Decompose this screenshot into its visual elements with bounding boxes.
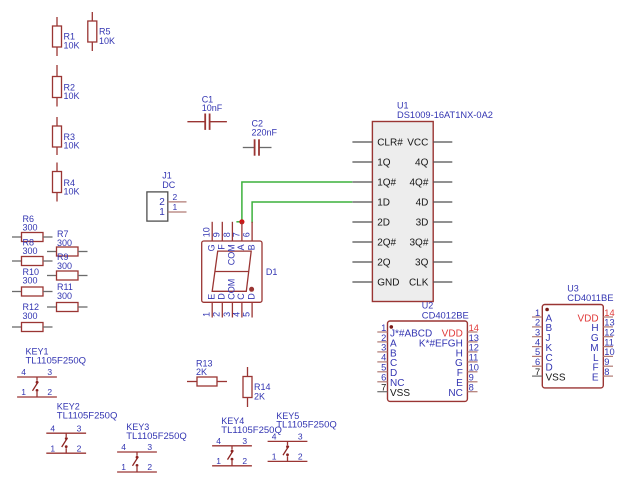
svg-text:300: 300	[23, 311, 38, 321]
svg-text:2D: 2D	[377, 217, 390, 228]
pushbutton KEY2	[46, 433, 86, 453]
svg-text:300: 300	[23, 276, 38, 286]
wire net from U1 1Q# to D1 pin 7	[242, 182, 352, 222]
svg-text:7: 7	[535, 367, 540, 377]
svg-text:3Q#: 3Q#	[409, 237, 428, 248]
svg-text:4: 4	[535, 337, 540, 347]
U2 left pin numbers 1-7	[381, 323, 386, 393]
wire stub left of junction	[236, 221, 239, 223]
svg-text:COM: COM	[227, 279, 237, 300]
svg-text:TL1105F250Q: TL1105F250Q	[57, 411, 118, 422]
U1 right pin stubs	[433, 142, 452, 282]
svg-text:3: 3	[47, 367, 52, 377]
svg-text:VCC: VCC	[407, 137, 428, 148]
svg-text:10: 10	[604, 347, 614, 357]
U2 right pin stubs	[467, 332, 477, 392]
svg-text:2: 2	[242, 456, 247, 466]
svg-text:COM: COM	[227, 244, 237, 265]
resistor R7	[47, 247, 88, 256]
svg-text:TL1105F250Q: TL1105F250Q	[276, 420, 337, 431]
svg-text:TL1105F250Q: TL1105F250Q	[126, 431, 187, 442]
svg-text:2: 2	[173, 192, 178, 202]
U2 left pin stubs	[377, 332, 387, 392]
svg-text:1: 1	[381, 323, 386, 333]
svg-text:6: 6	[381, 373, 386, 383]
U3 pin 1 dot	[545, 308, 549, 312]
svg-text:3Q: 3Q	[415, 257, 429, 268]
svg-text:3: 3	[298, 432, 303, 442]
svg-text:2: 2	[47, 387, 52, 397]
svg-text:CD4011BE: CD4011BE	[567, 292, 613, 303]
svg-text:DS1009-16AT1NX-0A2: DS1009-16AT1NX-0A2	[397, 110, 493, 120]
svg-text:14: 14	[604, 308, 614, 318]
svg-text:2Q: 2Q	[377, 257, 391, 268]
IC U2 body	[388, 321, 468, 401]
svg-text:2Q#: 2Q#	[377, 237, 396, 248]
svg-text:300: 300	[23, 246, 38, 256]
U2 pin 1 dot	[390, 325, 394, 329]
resistor R3	[53, 117, 62, 155]
svg-text:1: 1	[50, 443, 55, 453]
svg-text:1: 1	[202, 312, 212, 317]
svg-text:NC: NC	[448, 388, 462, 399]
U1 left pin stubs	[352, 142, 372, 282]
svg-text:E: E	[206, 294, 216, 300]
svg-text:DC: DC	[162, 180, 175, 190]
svg-text:220nF: 220nF	[252, 128, 278, 138]
svg-text:9: 9	[212, 232, 222, 237]
svg-text:1Q#: 1Q#	[377, 177, 396, 188]
U3 right pin stubs	[603, 317, 613, 376]
resistor R13	[187, 377, 227, 386]
svg-text:4Q#: 4Q#	[409, 177, 428, 188]
resistor R5	[88, 12, 97, 51]
svg-text:300: 300	[57, 291, 72, 301]
resistor R8	[12, 257, 53, 266]
svg-text:CLK: CLK	[409, 277, 429, 288]
svg-text:7: 7	[231, 232, 241, 237]
U2 pin names	[390, 328, 463, 399]
svg-text:4: 4	[50, 423, 55, 433]
svg-text:12: 12	[469, 343, 479, 353]
svg-text:10: 10	[202, 227, 212, 237]
seven-segment display D1 body	[202, 222, 262, 318]
svg-text:2: 2	[381, 333, 386, 343]
svg-text:300: 300	[23, 223, 38, 233]
svg-text:4: 4	[231, 312, 241, 317]
IC U3 body	[542, 305, 603, 388]
svg-text:4: 4	[121, 442, 126, 452]
svg-text:4: 4	[381, 353, 386, 363]
svg-text:1: 1	[173, 202, 178, 212]
wire net from U1 1D to D1 pin 6	[252, 202, 352, 223]
svg-text:3: 3	[535, 328, 540, 338]
svg-text:8: 8	[604, 367, 609, 377]
svg-text:A: A	[236, 244, 246, 250]
svg-text:10K: 10K	[64, 91, 80, 101]
D1 decimal point dot	[249, 287, 254, 292]
U1 pin names	[377, 137, 429, 288]
IC U1 body	[372, 122, 433, 302]
pushbutton KEY3	[117, 452, 157, 472]
svg-text:10K: 10K	[64, 140, 80, 150]
svg-text:5: 5	[242, 312, 252, 317]
svg-text:1: 1	[216, 456, 221, 466]
svg-text:2: 2	[298, 452, 303, 462]
svg-text:10K: 10K	[64, 186, 80, 196]
resistor R12	[12, 323, 53, 332]
svg-text:E: E	[592, 373, 599, 384]
svg-text:9: 9	[604, 357, 609, 367]
svg-text:2: 2	[77, 443, 82, 453]
svg-text:2: 2	[212, 312, 222, 317]
svg-text:B: B	[246, 244, 256, 250]
svg-text:300: 300	[57, 238, 72, 248]
svg-text:D: D	[246, 293, 256, 300]
svg-text:4: 4	[272, 432, 277, 442]
svg-text:1: 1	[272, 452, 277, 462]
resistor R9	[47, 271, 88, 280]
svg-text:4: 4	[216, 436, 221, 446]
svg-text:6: 6	[535, 357, 540, 367]
resistor R4	[53, 163, 62, 202]
svg-text:4: 4	[21, 367, 26, 377]
U3 left pin stubs	[532, 317, 542, 376]
svg-text:11: 11	[469, 353, 479, 363]
U3 left pin numbers 1-7	[535, 308, 540, 377]
svg-text:13: 13	[469, 333, 479, 343]
J1 pin 2	[168, 201, 187, 203]
junction dot on D1 pin 7	[239, 219, 244, 224]
svg-text:2: 2	[535, 318, 540, 328]
svg-text:3: 3	[147, 442, 152, 452]
svg-text:1: 1	[121, 462, 126, 472]
svg-text:TL1105F250Q: TL1105F250Q	[26, 356, 87, 367]
svg-text:4D: 4D	[416, 197, 429, 208]
svg-text:F: F	[217, 244, 227, 250]
svg-text:1: 1	[21, 387, 26, 397]
svg-text:CD4012BE: CD4012BE	[422, 310, 469, 321]
svg-text:D1: D1	[266, 267, 278, 277]
svg-text:8: 8	[469, 383, 474, 393]
svg-text:3: 3	[222, 312, 232, 317]
svg-text:2K: 2K	[196, 367, 207, 377]
resistor R1	[53, 17, 62, 56]
svg-text:10K: 10K	[99, 36, 115, 46]
svg-text:CLR#: CLR#	[377, 137, 403, 148]
svg-text:1D: 1D	[377, 197, 390, 208]
resistor R11	[47, 303, 88, 312]
svg-text:3: 3	[242, 436, 247, 446]
svg-text:7: 7	[381, 383, 386, 393]
svg-text:3: 3	[77, 423, 82, 433]
svg-text:12: 12	[604, 328, 614, 338]
svg-text:4Q: 4Q	[415, 157, 429, 168]
svg-text:10: 10	[469, 363, 479, 373]
svg-text:6: 6	[242, 232, 252, 237]
svg-text:G: G	[206, 244, 216, 251]
U3 right pin numbers 14-8	[604, 308, 614, 377]
pushbutton KEY5	[268, 441, 308, 461]
svg-text:1: 1	[159, 207, 165, 218]
U2 right pin numbers 14-8	[469, 323, 479, 393]
svg-text:300: 300	[57, 261, 72, 271]
svg-text:VSS: VSS	[546, 373, 566, 384]
svg-text:J1: J1	[162, 171, 172, 181]
svg-text:3D: 3D	[416, 217, 429, 228]
svg-text:10K: 10K	[64, 41, 80, 51]
svg-text:GND: GND	[377, 277, 399, 288]
svg-text:2: 2	[147, 462, 152, 472]
svg-text:11: 11	[604, 337, 614, 347]
svg-text:5: 5	[381, 363, 386, 373]
U3 pin names	[546, 313, 600, 383]
svg-text:14: 14	[469, 323, 479, 333]
svg-text:D: D	[217, 293, 227, 300]
resistor R10	[12, 287, 53, 296]
resistor R6	[12, 233, 53, 242]
pushbutton KEY1	[17, 377, 57, 397]
svg-text:1: 1	[535, 308, 540, 318]
svg-text:2K: 2K	[254, 391, 265, 401]
J1 pin 1	[168, 211, 187, 213]
svg-text:C: C	[236, 293, 246, 300]
svg-text:13: 13	[604, 318, 614, 328]
svg-text:5: 5	[535, 347, 540, 357]
svg-text:VSS: VSS	[390, 388, 410, 399]
svg-text:10nF: 10nF	[202, 103, 223, 113]
svg-text:9: 9	[469, 373, 474, 383]
svg-text:3: 3	[381, 343, 386, 353]
resistor R2	[53, 65, 62, 107]
connector J1 box	[147, 192, 168, 221]
resistor R14	[243, 367, 252, 407]
svg-text:8: 8	[222, 232, 232, 237]
capacitor C2	[243, 139, 272, 155]
pushbutton KEY4	[212, 446, 252, 466]
svg-text:1Q: 1Q	[377, 157, 391, 168]
capacitor C1	[187, 114, 227, 130]
